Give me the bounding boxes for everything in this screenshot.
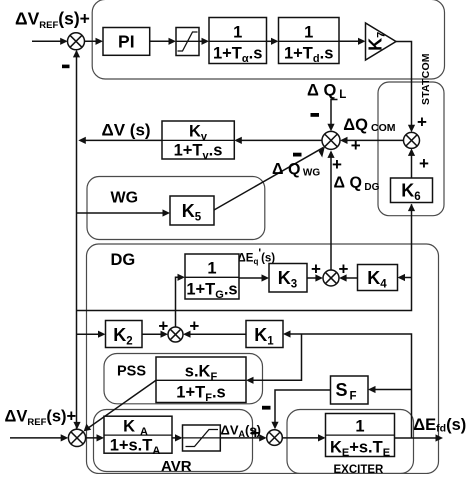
wire spine to K6 via bottom feed line bbox=[77, 204, 412, 310]
block 1/(1+Td.s) bbox=[279, 18, 340, 66]
wire K6 to S3 bbox=[411, 150, 413, 178]
svg-text:ΔV (s): ΔV (s) bbox=[102, 120, 151, 139]
block K1 bbox=[246, 321, 283, 348]
AVR group rounded box bbox=[94, 410, 253, 472]
wire spine to K2 bbox=[77, 333, 104, 335]
svg-text:+: + bbox=[189, 317, 199, 336]
summing junction S1 bbox=[68, 33, 85, 50]
summing junction S5 bbox=[168, 327, 183, 342]
wire limiter2 to S7 bbox=[220, 437, 265, 439]
summing junction S6 bbox=[68, 429, 85, 446]
wire S3 to S2 bbox=[342, 139, 404, 141]
svg-text:1: 1 bbox=[233, 24, 242, 42]
block Kv bbox=[162, 121, 234, 162]
svg-text:1+Tv.s: 1+Tv.s bbox=[174, 142, 223, 163]
block KA bbox=[104, 416, 172, 457]
minus sign SF input to S7 bbox=[262, 406, 271, 410]
wire input bottom bbox=[10, 437, 67, 439]
svg-text:+: + bbox=[419, 154, 429, 173]
wire S6 to KA bbox=[86, 437, 103, 439]
svg-text:+: + bbox=[311, 259, 321, 278]
limiter block bbox=[176, 28, 199, 56]
svg-text:1: 1 bbox=[355, 418, 364, 436]
wire dQL down bbox=[331, 100, 338, 130]
wire SF to S7 bbox=[275, 390, 331, 428]
wire input top bbox=[32, 40, 66, 42]
summing junction S7 bbox=[267, 430, 283, 446]
EXCITER group rounded box bbox=[287, 410, 414, 474]
PSS group rounded box bbox=[104, 354, 263, 404]
wire Kv to left spine bbox=[80, 139, 162, 141]
minus sign dQL bbox=[311, 113, 320, 117]
summing junction S4 bbox=[323, 270, 339, 286]
wire S4 to S2 vertical bbox=[330, 152, 332, 269]
wire B2 to K7 bbox=[339, 40, 364, 42]
wire K3 to S4 bbox=[307, 277, 321, 279]
summing junction S2 main bbox=[322, 131, 340, 149]
wire spine to K5 bbox=[77, 212, 168, 214]
wire branch down to PSS block input bbox=[248, 334, 302, 380]
WG group rounded box bbox=[87, 177, 265, 240]
svg-text:+: + bbox=[351, 136, 361, 155]
wire feedback to SF bbox=[370, 389, 412, 391]
svg-text:+: + bbox=[339, 259, 349, 278]
block SF bbox=[331, 376, 369, 404]
wire S5 up to G input bbox=[176, 277, 184, 327]
wire dV feedback vertical spine bbox=[76, 51, 78, 429]
wire G to K3 bbox=[239, 277, 267, 279]
STATCOM group rounded box bbox=[378, 82, 444, 216]
summing junction S3 bbox=[404, 132, 420, 148]
svg-text:+: + bbox=[250, 423, 260, 442]
svg-text:+: + bbox=[417, 112, 427, 131]
wire K7 to S3 bbox=[396, 42, 412, 131]
wire K4 to S4 bbox=[341, 277, 358, 279]
block 1/(1+Ta.s) bbox=[209, 18, 267, 66]
block sKF/(1+TF.s) bbox=[156, 357, 246, 404]
wire B1 to B2 bbox=[267, 40, 277, 42]
wire K1 to S5 bbox=[185, 333, 246, 335]
svg-text:1+Tα.s: 1+Tα.s bbox=[213, 45, 262, 66]
svg-text:1+TG.s: 1+TG.s bbox=[186, 281, 237, 302]
svg-text:AVR: AVR bbox=[161, 458, 192, 474]
svg-text:+: + bbox=[332, 155, 342, 174]
svg-text:1: 1 bbox=[207, 260, 216, 278]
limiter2 block bbox=[183, 425, 221, 451]
minus sign WG input bbox=[293, 153, 302, 157]
wire feedback vertical to K4 bbox=[399, 277, 411, 279]
wire PSS diagonal to S6 bbox=[85, 380, 156, 430]
wire K5 diagonal to S2 bbox=[214, 147, 324, 210]
svg-text:STATCOM: STATCOM bbox=[420, 53, 432, 105]
wire S1 to PI bbox=[85, 40, 102, 42]
wire S2 to Kv bbox=[236, 139, 322, 141]
block K3 bbox=[269, 264, 307, 293]
wire K2 to S5 bbox=[142, 333, 166, 335]
svg-text:1+TF.s: 1+TF.s bbox=[176, 384, 225, 405]
block K5 bbox=[170, 196, 214, 225]
svg-text:+: + bbox=[158, 317, 168, 336]
svg-text:1: 1 bbox=[304, 24, 313, 42]
svg-text:DG: DG bbox=[111, 251, 136, 269]
wire S7 to exciter bbox=[282, 437, 324, 439]
block K2 bbox=[106, 321, 143, 348]
svg-text:PSS: PSS bbox=[117, 364, 146, 380]
block K6 bbox=[391, 178, 433, 203]
svg-text:PI: PI bbox=[118, 32, 135, 52]
block G 1/(1+TG.s) bbox=[185, 254, 239, 301]
wire limiter to B1 bbox=[199, 40, 207, 42]
svg-text:1+Td.s: 1+Td.s bbox=[284, 45, 333, 66]
DG group rounded box bbox=[87, 244, 439, 474]
svg-text:WG: WG bbox=[111, 190, 139, 207]
block exciter 1/(KE+s.TE) bbox=[326, 414, 395, 460]
wire exciter output feedback up to K1 bbox=[285, 334, 412, 438]
svg-text:KE+s.TE: KE+s.TE bbox=[330, 439, 390, 460]
block K4 bbox=[358, 265, 398, 291]
wire exciter output bbox=[395, 437, 442, 439]
block PI bbox=[103, 28, 150, 56]
amplifier K7 triangle bbox=[366, 23, 397, 60]
minus sign at S1 bbox=[62, 65, 70, 69]
wire KA to limiter2 bbox=[172, 437, 181, 439]
wire PI to limiter bbox=[150, 40, 175, 42]
controller group rounded box bbox=[92, 0, 444, 79]
svg-text:EXCITER: EXCITER bbox=[334, 464, 385, 474]
